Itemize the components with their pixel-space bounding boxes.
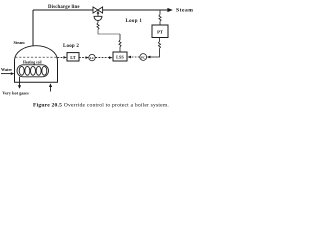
wire signal valve to corner	[98, 29, 120, 34]
wire PT to PC corner	[148, 48, 160, 57]
svg-text:Loop 1: Loop 1	[126, 19, 143, 24]
wire gas outlet pipe	[19, 77, 21, 86]
arrow steam outlet	[167, 8, 172, 12]
wire signal corner down to LSS	[119, 34, 121, 40]
valve V1 stem arrow	[97, 11, 100, 14]
arrow gas outlet (down)	[18, 85, 21, 89]
zigzag signal mark above LSS	[119, 40, 121, 47]
arrow into PC	[147, 56, 151, 59]
wire PC to LSS (dashed)	[129, 56, 140, 58]
wire water inlet	[1, 73, 13, 75]
zigzag signal mark above PT	[159, 15, 161, 22]
wire into PT top	[159, 21, 161, 25]
zigzag signal mark below valve	[97, 23, 99, 30]
transmitter PT	[152, 25, 168, 38]
arrow into LSS right	[127, 56, 131, 59]
svg-text:Steam: Steam	[176, 8, 193, 14]
wire into LSS top	[119, 47, 121, 52]
svg-text:Discharge line: Discharge line	[48, 5, 80, 10]
wire signal to valve actuator	[97, 21, 99, 23]
zigzag signal mark below PT	[158, 42, 160, 49]
selector LSS	[113, 52, 127, 61]
arrow into LC	[86, 56, 89, 59]
wire drum to LT (dashed)	[58, 56, 65, 58]
arrow into LSS left	[109, 56, 113, 59]
water level (dashed)	[15, 56, 56, 58]
heating coil loops	[19, 66, 47, 75]
wire riser pipe from drum to discharge line	[32, 10, 34, 46]
wire PT output down	[159, 38, 161, 42]
boiler drum dome	[15, 46, 58, 61]
arrow gas inlet (up)	[49, 83, 52, 87]
wire discharge steam line	[33, 9, 169, 11]
controller LC	[89, 54, 95, 60]
svg-text:LC: LC	[90, 56, 95, 60]
svg-text:Steam: Steam	[14, 40, 26, 45]
wire LT to LC (dashed)	[79, 57, 88, 59]
svg-text:Loop 2: Loop 2	[63, 44, 79, 49]
wire pressure tap from steam line	[159, 10, 161, 15]
controller PC	[140, 54, 147, 61]
svg-text:PC: PC	[141, 55, 146, 59]
valve V1 body	[93, 7, 103, 13]
boiler drum shell	[15, 61, 58, 83]
arrow into LT	[63, 56, 66, 59]
svg-text:Water: Water	[1, 67, 12, 72]
valve V1 stem	[97, 14, 99, 17]
wire LC to LSS (dashed)	[95, 57, 110, 59]
svg-text:PT: PT	[157, 29, 163, 34]
arrow water inlet	[11, 72, 15, 75]
wire gas inlet pipe	[50, 87, 52, 92]
svg-text:Very hot gases: Very hot gases	[2, 90, 29, 95]
svg-text:Heating coil: Heating coil	[23, 61, 41, 65]
svg-text:LT: LT	[70, 55, 76, 60]
transmitter LT	[67, 53, 79, 61]
svg-text:Figure 20.5 Override control: Figure 20.5 Override control to protect …	[33, 103, 169, 109]
heating coil outline	[17, 65, 49, 77]
valve V1 diaphragm actuator	[94, 16, 102, 20]
svg-text:LSS: LSS	[116, 55, 124, 60]
